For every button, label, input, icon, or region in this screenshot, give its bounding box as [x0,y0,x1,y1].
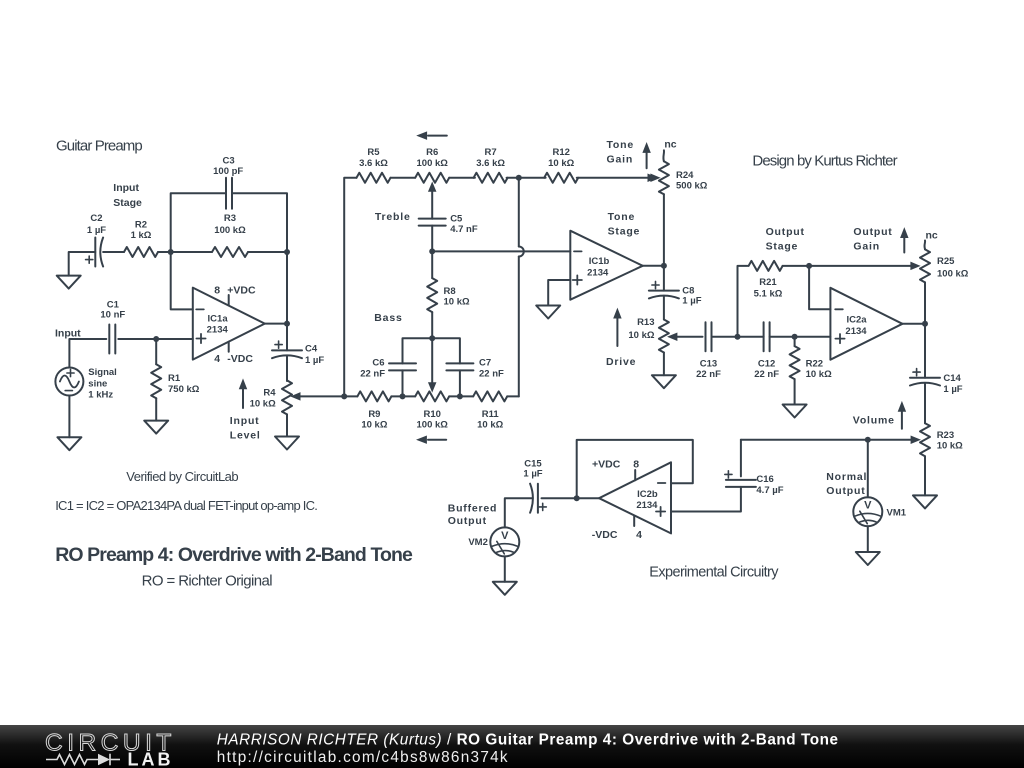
svg-text:+VDC: +VDC [592,459,621,471]
wire C5 to node [431,226,433,252]
wire C16 riser [740,440,742,477]
label Tone Gain with arrow [607,139,651,168]
svg-text:22 nF: 22 nF [696,369,721,380]
svg-text:V: V [501,530,509,542]
svg-text:R10: R10 [423,409,440,420]
wire R5 to R6 [391,177,416,179]
svg-text:1 µF: 1 µF [87,225,106,236]
wire C12 to IC2a noninverting [770,336,831,338]
wire node to IC1a inverting input [171,252,193,309]
potentiometer R10 100 k [415,391,449,430]
svg-text:C12: C12 [758,358,775,369]
svg-text:10 kΩ: 10 kΩ [444,296,470,307]
label Output Stage [766,226,805,252]
wire node to IC1b inverting [432,250,570,252]
svg-text:VM1: VM1 [887,508,907,519]
ground below R23 [913,495,937,508]
svg-text:nc: nc [926,230,938,242]
node junction IC2b output [574,495,580,501]
resistor R5 3.6 k [357,147,391,183]
node junction C1/R1 [153,336,159,342]
svg-text:V: V [864,500,872,512]
node junction VM1 tap [865,437,871,443]
svg-text:C5: C5 [450,214,463,225]
wire IC1b output [643,265,664,267]
node junction IC1b output [661,263,667,269]
ground below R1 [144,421,168,434]
wire R2 to node [158,251,212,253]
footer author line [217,731,839,748]
footer url line [217,749,509,766]
svg-text:Experimental Circuitry: Experimental Circuitry [649,565,779,581]
label Buffered Output [448,502,498,527]
svg-text:Gain: Gain [853,240,880,252]
wire C15 to VM2 [505,498,533,527]
svg-text:C3: C3 [223,156,235,167]
wire C4 to R4 [286,356,288,381]
svg-text:750 kΩ: 750 kΩ [168,384,200,395]
svg-text:10 kΩ: 10 kΩ [250,398,276,409]
capacitor C6 22 nF [360,358,416,380]
svg-text:R6: R6 [426,147,438,158]
svg-text:Buffered: Buffered [448,502,498,514]
svg-text:R25: R25 [937,256,955,267]
wire R12 to R24 wiper [577,174,657,181]
svg-text:Tone: Tone [608,211,636,223]
wire IC2a output [902,323,925,325]
resistor R8 10 k [427,251,470,338]
svg-text:R12: R12 [552,147,569,158]
svg-text:R4: R4 [263,388,276,399]
text Guitar Preamp [56,137,142,154]
wire C2 to R2 [103,251,124,253]
svg-text:IC1b: IC1b [589,256,610,267]
node junction R8/C6/C7/R10 [429,335,435,341]
logo LAB [128,750,174,768]
svg-text:sine: sine [88,379,107,390]
node junction R2/R3/C3/inverting [168,249,174,255]
svg-text:http://circuitlab.com/c4bs8w86: http://circuitlab.com/c4bs8w86n374k [217,749,509,766]
svg-text:5.1 kΩ: 5.1 kΩ [754,289,783,300]
svg-text:R11: R11 [482,409,500,420]
svg-text:VM2: VM2 [468,537,488,548]
text Design by Kurtus Richter [752,153,897,170]
svg-text:Level: Level [230,429,261,441]
resistor R3 100 k [212,213,248,257]
svg-text:R23: R23 [937,430,954,441]
node junction C7/R10/R11 [457,393,463,399]
svg-text:Input: Input [230,415,260,427]
capacitor C1 10 nF [100,300,125,354]
svg-text:R21: R21 [759,277,777,288]
svg-text:+VDC: +VDC [227,285,256,297]
wire C6 to rail [402,370,404,396]
capacitor C13 22 nF [696,322,721,380]
svg-text:C4: C4 [305,344,318,355]
footer bar [0,725,1024,768]
svg-text:4.7 µF: 4.7 µF [756,485,783,496]
voltage source VS1 Signal sine 1 kHz [55,367,116,401]
wire node up to C3 [171,193,226,252]
wire junction up to R21 [738,266,748,337]
wire C8 to R13 [663,296,665,320]
capacitor C5 4.7 nF [419,214,478,235]
logo CIRCUIT [45,730,176,757]
voltmeter VM2 [468,527,519,556]
op-amp IC1b [570,231,642,300]
svg-text:1 µF: 1 µF [943,384,962,395]
svg-text:R13: R13 [637,317,654,328]
wire IC2b output to C15 [542,497,600,499]
svg-text:Input: Input [113,182,139,194]
svg-text:3.6 kΩ: 3.6 kΩ [476,158,505,169]
ground below R22 [783,405,807,418]
svg-text:Volume: Volume [853,415,895,427]
potentiometer R6 100 k [415,147,449,219]
wire output down to C14 [924,324,926,378]
resistor R9 10 k [344,391,391,430]
pin 4 -VDC of IC1a [214,342,253,365]
svg-text:Verified by CircuitLab: Verified by CircuitLab [126,469,238,484]
pin 8 +VDC of IC1a [214,285,256,306]
svg-text:22 nF: 22 nF [754,369,779,380]
svg-text:Stage: Stage [608,225,641,237]
svg-text:2134: 2134 [636,500,658,511]
svg-text:Guitar Preamp: Guitar Preamp [56,137,142,154]
wire R4 wiper to tone stack [296,395,344,397]
ground below R4 [275,437,299,450]
svg-text:C2: C2 [90,213,102,224]
wire feedback to IC2a inverting [809,266,830,309]
svg-text:10 kΩ: 10 kΩ [477,420,503,431]
svg-text:Tone: Tone [607,139,635,151]
svg-text:HARRISON RICHTER (Kurtus) / RO: HARRISON RICHTER (Kurtus) / RO Guitar Pr… [217,731,839,748]
wire R10 wiper drop [429,338,436,391]
wire C16 to IC2b noninverting [671,487,741,512]
svg-text:1 µF: 1 µF [305,355,324,366]
wire IC1a output [265,323,287,325]
svg-text:100 kΩ: 100 kΩ [937,269,969,280]
svg-text:C8: C8 [682,285,694,296]
ground below VM2 [493,556,517,594]
ground at IC1b [536,306,560,319]
svg-text:C13: C13 [700,358,717,369]
svg-text:Output: Output [766,226,805,238]
svg-text:R1: R1 [168,373,181,384]
capacitor C7 22 nF [446,358,504,380]
svg-text:2134: 2134 [207,325,229,336]
arrow below R10 [417,436,446,443]
potentiometer R23 10 k [911,423,963,495]
potentiometer R25 100 k [920,249,969,282]
text Verified by CircuitLab [126,469,238,484]
svg-text:Gain: Gain [607,154,634,166]
wire volume rail [741,439,911,441]
node junction C12/R22 [792,334,798,340]
resistor R1 750 k [151,339,200,421]
node junction R4 wiper/R9 [341,393,347,399]
svg-text:C14: C14 [943,373,961,384]
net nc at R25 [924,230,937,250]
svg-text:IC2b: IC2b [637,489,658,500]
svg-text:Drive: Drive [606,356,636,368]
wire R21 to R25 wiper [783,262,920,269]
wire R25 to IC2a output [924,282,926,323]
svg-text:4: 4 [636,529,642,541]
wire IC2b feedback loop [577,440,693,498]
svg-text:Stage: Stage [113,197,142,209]
svg-text:-VDC: -VDC [592,529,618,541]
wire bass bracket [403,338,460,363]
svg-text:10 kΩ: 10 kΩ [548,158,574,169]
wire C7 to rail [459,370,461,396]
svg-text:500 kΩ: 500 kΩ [676,181,708,192]
svg-text:R2: R2 [135,219,147,230]
svg-text:Output: Output [826,485,865,497]
wire tone stack left branch [344,178,356,397]
op-amp IC1a [193,288,265,360]
svg-text:Output: Output [853,226,892,238]
svg-text:Design by Kurtus Richter: Design by Kurtus Richter [752,153,897,170]
wire down to VM1 [867,440,869,498]
wire input to C1 [69,339,106,368]
node junction C5/R8/IC1b [429,248,435,254]
ground below C2 [57,276,81,289]
svg-text:10 nF: 10 nF [100,310,125,321]
svg-text:RO Preamp 4: Overdrive with 2-: RO Preamp 4: Overdrive with 2-Band Tone [55,544,413,566]
wire C1 to op-amp [118,338,193,340]
text Experimental Circuitry [649,565,779,581]
resistor R7 3.6 k [474,147,508,183]
resistor R22 10 k [790,337,832,405]
node junction C6/R9/R10 [400,393,406,399]
resistor R21 5.1 k [749,261,783,300]
resistor R12 10 k [544,147,578,183]
wire C2 left to ground [69,252,96,276]
capacitor C15 1 uF [523,458,546,512]
label Output Gain with arrow [853,226,907,253]
svg-text:100 kΩ: 100 kΩ [417,158,449,169]
svg-text:8: 8 [214,285,220,297]
svg-text:LAB: LAB [128,750,174,768]
capacitor C16 4.7 uF [725,471,784,496]
svg-text:IC2a: IC2a [846,315,867,326]
label Input Level with arrow [230,380,261,442]
node Input label [55,327,81,339]
node junction IC2a output [922,321,928,327]
svg-text:1 µF: 1 µF [682,296,701,307]
svg-text:10 kΩ: 10 kΩ [628,330,654,341]
wire C3 to right branch [232,193,287,252]
potentiometer R24 500 k [651,161,708,194]
ground below VM1 [856,526,880,565]
node junction IC1a output [284,321,290,327]
svg-text:IC1 = IC2 = OPA2134PA dual FET: IC1 = IC2 = OPA2134PA dual FET-input op-… [55,498,317,513]
svg-text:R9: R9 [368,409,380,420]
text IC note [55,498,317,513]
logo resistor-diode glyph [46,754,120,766]
wire R13 wiper to C13 [673,336,703,338]
capacitor C4 1 uF [272,341,324,366]
svg-text:22 nF: 22 nF [360,369,385,380]
resistor R11 10 k [473,391,507,430]
ground below R13 [652,375,676,388]
label Volume with arrow [853,402,906,428]
voltmeter VM1 [853,497,906,526]
svg-text:4: 4 [214,353,220,365]
label Tone Stage [608,211,641,237]
node junction R3/C3/output branch [284,249,290,255]
text RO = Richter Original [142,573,273,590]
svg-text:Signal: Signal [88,367,117,378]
ground below VS1 [57,396,81,451]
svg-text:1 kΩ: 1 kΩ [131,230,152,241]
svg-text:4.7 nF: 4.7 nF [450,224,478,235]
wire R9 to R10 [391,395,415,397]
net nc at R24 [663,139,676,162]
text title RO Preamp 4 [55,544,413,566]
svg-text:C7: C7 [479,358,491,369]
svg-text:RO = Richter Original: RO = Richter Original [142,573,273,590]
wire R10 to R11 [449,395,473,397]
wire branch down with hop [519,178,524,397]
op-amp IC2b [599,462,671,533]
wire output down to C4 [286,324,288,351]
resistor R2 1 k [124,219,158,257]
svg-text:100 kΩ: 100 kΩ [214,225,246,236]
wire feedback down to output [286,252,288,324]
svg-text:Stage: Stage [766,240,799,252]
node junction C13/R21 [735,334,741,340]
capacitor C12 22 nF [754,322,779,380]
svg-text:Input: Input [55,327,81,339]
svg-text:C6: C6 [372,358,384,369]
svg-text:nc: nc [664,139,676,151]
svg-text:R5: R5 [367,147,380,158]
label Input Stage [113,182,142,209]
svg-text:3.6 kΩ: 3.6 kΩ [359,158,388,169]
capacitor C8 1 uF [649,281,702,306]
wire R11 to right branch [507,395,519,397]
svg-text:R3: R3 [224,213,236,224]
capacitor C2 1 uF [86,213,107,267]
op-amp IC2a [830,288,902,360]
svg-text:100 pF: 100 pF [213,166,243,177]
potentiometer R4 10 k [250,380,300,436]
svg-text:8: 8 [633,459,639,471]
svg-text:R8: R8 [444,286,456,297]
svg-text:Treble: Treble [375,211,411,223]
wire R3 to node [248,251,287,253]
svg-text:22 nF: 22 nF [479,369,504,380]
svg-text:1 kHz: 1 kHz [88,390,113,401]
pin 8 +VDC of IC2b [592,459,639,481]
wire R6 to R7 [449,177,475,179]
svg-text:C16: C16 [756,474,773,485]
label Drive with arrow [606,309,636,368]
svg-text:Normal: Normal [826,471,867,483]
capacitor C14 1 uF [910,369,963,396]
potentiometer R13 10 k [628,317,677,375]
node junction R7/R12/branch [516,175,522,181]
svg-text:10 kΩ: 10 kΩ [361,420,387,431]
svg-text:Bass: Bass [374,312,402,324]
svg-text:2134: 2134 [587,268,609,279]
svg-text:R22: R22 [806,358,823,369]
svg-text:1 µF: 1 µF [523,469,542,480]
wire R7 to junction [507,177,546,179]
wire IC1b noninverting to ground [548,280,570,306]
node junction R21/IC2a feedback [806,263,812,269]
label Bass [374,312,402,324]
label Normal Output [826,471,867,497]
svg-text:10 kΩ: 10 kΩ [937,441,963,452]
wire R24 to IC1b output [663,194,665,265]
svg-text:10 kΩ: 10 kΩ [806,369,832,380]
wire output down to C8 [663,266,665,291]
wire C14 to R23 [924,383,926,423]
wire C13 to junction [712,336,764,338]
svg-text:R7: R7 [485,147,497,158]
capacitor C3 100 pF [213,156,243,209]
svg-text:R24: R24 [676,170,694,181]
svg-text:-VDC: -VDC [227,353,253,365]
label Treble [375,211,411,223]
svg-text:2134: 2134 [845,326,867,337]
arrow above R6 [418,132,447,139]
svg-text:100 kΩ: 100 kΩ [417,420,449,431]
pin 4 -VDC of IC2b [592,516,642,541]
svg-text:C15: C15 [524,458,542,469]
svg-text:IC1a: IC1a [208,314,229,325]
svg-text:Output: Output [448,515,487,527]
